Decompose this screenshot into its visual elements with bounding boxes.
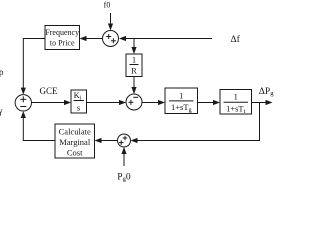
svg-text:ρ: ρ: [0, 67, 4, 77]
svg-text:to Price: to Price: [50, 39, 75, 48]
svg-text:f0: f0: [104, 1, 111, 10]
svg-text:1+sTt: 1+sTt: [226, 103, 246, 115]
svg-text:GCE: GCE: [40, 86, 59, 96]
svg-text:1: 1: [132, 55, 136, 65]
svg-text:1: 1: [234, 92, 238, 102]
svg-text:R: R: [131, 66, 137, 76]
svg-text:s: s: [77, 103, 80, 113]
svg-text:Calculate: Calculate: [59, 127, 91, 137]
svg-text:1+sTg: 1+sTg: [171, 102, 192, 114]
svg-text:γ: γ: [0, 106, 3, 116]
svg-text:Frequency: Frequency: [45, 28, 79, 37]
svg-text:Marginal: Marginal: [59, 137, 91, 147]
svg-text:1: 1: [179, 91, 183, 101]
svg-text:Δf: Δf: [231, 34, 241, 45]
svg-text:Cost: Cost: [67, 148, 83, 158]
